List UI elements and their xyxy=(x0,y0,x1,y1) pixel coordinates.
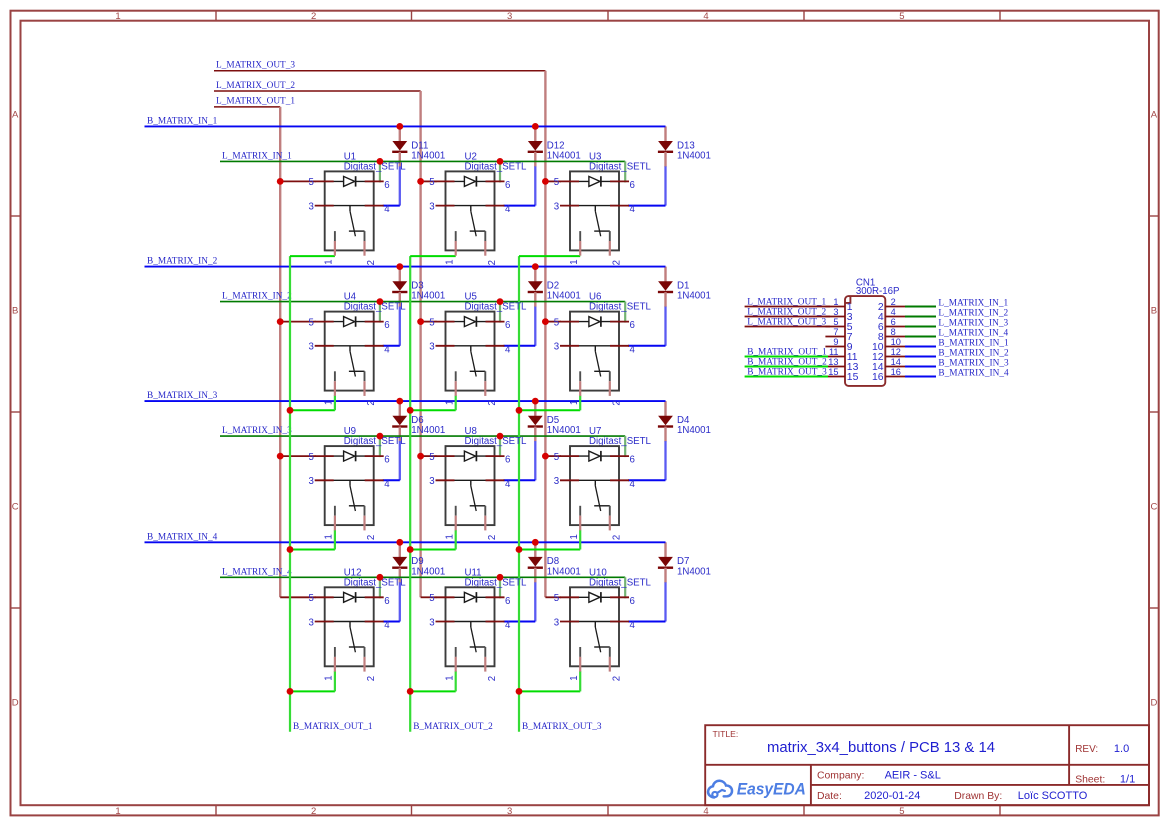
svg-text:4: 4 xyxy=(630,620,636,631)
svg-text:B: B xyxy=(12,306,18,317)
svg-text:10: 10 xyxy=(891,337,901,347)
wire L_MATRIX_OUT_1 to U pin 5 row 4 xyxy=(280,596,316,598)
wire D7 cathode to pin 4 xyxy=(664,582,666,621)
wire L_MATRIX_IN_1 drop to U pin 6 col 3 xyxy=(624,161,626,182)
svg-text:2: 2 xyxy=(366,676,377,681)
junction xyxy=(542,318,549,325)
svg-text:3: 3 xyxy=(554,342,559,353)
wire B_MATRIX_OUT_1 vertical xyxy=(289,256,291,732)
diode D8 1N4001 xyxy=(528,542,581,583)
svg-text:Date:: Date: xyxy=(817,791,842,802)
svg-text:1N4001: 1N4001 xyxy=(547,150,581,161)
svg-text:1N4001: 1N4001 xyxy=(547,425,581,436)
svg-text:L_MATRIX_IN_2: L_MATRIX_IN_2 xyxy=(222,292,292,302)
svg-text:2: 2 xyxy=(366,400,377,405)
pushbutton unit U3 Digitast_SETL xyxy=(554,152,652,266)
svg-text:B_MATRIX_OUT_3: B_MATRIX_OUT_3 xyxy=(747,367,827,377)
svg-text:Drawn By:: Drawn By: xyxy=(954,791,1002,802)
junction xyxy=(407,407,414,414)
wire B_MATRIX_IN_1 xyxy=(145,125,666,127)
diode D9 1N4001 xyxy=(392,542,445,583)
svg-text:1N4001: 1N4001 xyxy=(411,566,445,577)
diode D2 1N4001 xyxy=(528,267,581,308)
svg-text:1: 1 xyxy=(569,534,580,539)
svg-text:4: 4 xyxy=(703,806,708,817)
svg-text:3: 3 xyxy=(833,307,838,317)
svg-text:2: 2 xyxy=(311,806,316,817)
wire D5 cathode to pin 4 xyxy=(534,441,536,480)
svg-text:B_MATRIX_IN_3: B_MATRIX_IN_3 xyxy=(938,359,1009,369)
svg-text:4: 4 xyxy=(384,204,390,215)
wire B_MATRIX_OUT_3 to U pin 1 row 1 xyxy=(519,255,580,257)
junction xyxy=(417,318,424,325)
wire L_MATRIX_OUT_1 at CN1 pin 1 xyxy=(745,306,830,308)
svg-text:B_MATRIX_IN_2: B_MATRIX_IN_2 xyxy=(147,257,218,267)
svg-text:3: 3 xyxy=(429,476,434,487)
pushbutton unit U12 Digitast_SETL xyxy=(309,567,407,681)
wire L_MATRIX_OUT_2 horizontal rail xyxy=(214,90,421,92)
wire D13 cathode to pin 4 xyxy=(664,166,666,205)
svg-text:1: 1 xyxy=(444,534,455,539)
svg-text:15: 15 xyxy=(828,367,838,377)
svg-text:D: D xyxy=(1150,698,1157,709)
junction xyxy=(396,263,403,270)
CN1 pin 5 xyxy=(825,326,845,328)
diode D4 1N4001 xyxy=(658,401,711,442)
wire B_MATRIX_OUT_3 to U pin 1 row 2 xyxy=(519,409,580,411)
svg-text:6: 6 xyxy=(384,180,389,191)
wire B_MATRIX_IN_3 xyxy=(145,400,666,402)
wire D2 cathode to pin 4 xyxy=(534,307,536,346)
svg-text:REV:: REV: xyxy=(1075,744,1098,755)
wire L_MATRIX_OUT_1 horizontal rail xyxy=(214,106,280,108)
svg-text:L_MATRIX_OUT_1: L_MATRIX_OUT_1 xyxy=(216,97,295,107)
CN1 pin 3 xyxy=(825,316,845,318)
svg-text:6: 6 xyxy=(630,455,635,466)
wire L_MATRIX_IN_2 xyxy=(220,301,625,303)
wire L_MATRIX_IN_4 drop to U pin 6 col 3 xyxy=(624,577,626,598)
svg-text:L_MATRIX_OUT_2: L_MATRIX_OUT_2 xyxy=(216,81,295,91)
svg-text:1/1: 1/1 xyxy=(1120,773,1135,785)
wire B_MATRIX_OUT_3 to U pin 1 row 3 xyxy=(519,549,580,551)
wire D6 cathode to pin 4 xyxy=(399,441,401,480)
junction xyxy=(532,539,539,546)
wire L_MATRIX_OUT_3 vertical drop xyxy=(544,71,546,598)
svg-text:6: 6 xyxy=(630,596,635,607)
svg-text:1: 1 xyxy=(324,400,335,405)
svg-text:6: 6 xyxy=(384,455,389,466)
svg-text:4: 4 xyxy=(505,479,511,490)
svg-text:4: 4 xyxy=(384,479,390,490)
diode D1 1N4001 xyxy=(658,267,711,308)
svg-text:B_MATRIX_OUT_2: B_MATRIX_OUT_2 xyxy=(747,357,827,367)
wire B_MATRIX_OUT_2 to U pin 1 row 1 xyxy=(410,255,456,257)
wire B_MATRIX_IN_3 at CN1 pin 14 xyxy=(905,366,936,368)
svg-text:L_MATRIX_OUT_3: L_MATRIX_OUT_3 xyxy=(747,317,826,327)
svg-text:7: 7 xyxy=(833,327,838,337)
wire L_MATRIX_OUT_3 to U pin 5 row 1 xyxy=(545,180,561,182)
svg-text:D: D xyxy=(12,698,19,709)
svg-text:1N4001: 1N4001 xyxy=(677,291,711,302)
svg-text:3: 3 xyxy=(309,201,314,212)
svg-text:12: 12 xyxy=(891,347,901,357)
svg-text:3: 3 xyxy=(554,201,559,212)
junction xyxy=(377,574,384,581)
svg-text:L_MATRIX_OUT_2: L_MATRIX_OUT_2 xyxy=(747,307,826,317)
diode D13 1N4001 xyxy=(658,126,711,166)
wire D8 cathode to pin 4 xyxy=(534,582,536,621)
svg-text:5: 5 xyxy=(554,452,559,463)
wire L_MATRIX_OUT_1 to U pin 5 row 1 xyxy=(280,180,316,182)
svg-text:3: 3 xyxy=(507,11,512,22)
junction xyxy=(516,688,523,695)
junction xyxy=(497,574,504,581)
svg-text:2: 2 xyxy=(366,535,377,540)
svg-text:1N4001: 1N4001 xyxy=(411,425,445,436)
svg-text:4: 4 xyxy=(703,11,708,22)
svg-text:L_MATRIX_OUT_3: L_MATRIX_OUT_3 xyxy=(216,61,295,71)
wire L_MATRIX_OUT_3 at CN1 pin 5 xyxy=(745,326,830,328)
wire L_MATRIX_OUT_2 to U pin 5 row 1 xyxy=(421,180,437,182)
svg-text:4: 4 xyxy=(505,204,511,215)
wire L_MATRIX_IN_3 xyxy=(220,435,625,437)
svg-text:5: 5 xyxy=(429,317,434,328)
wire B_MATRIX_OUT_1 at CN1 pin 11 xyxy=(745,356,828,358)
junction xyxy=(287,546,294,553)
wire B_MATRIX_OUT_1 to U pin 1 row 4 xyxy=(290,690,335,692)
wire L_MATRIX_OUT_1 vertical drop xyxy=(279,107,281,597)
wire B_MATRIX_OUT_3 at CN1 pin 15 xyxy=(745,376,828,378)
wire D1 cathode to pin 4 xyxy=(664,307,666,346)
junction xyxy=(542,178,549,185)
wire L_MATRIX_IN_2 drop to U pin 6 col 2 xyxy=(499,302,501,323)
svg-text:2: 2 xyxy=(487,400,498,405)
svg-text:2: 2 xyxy=(611,535,622,540)
wire D4 cathode to pin 4 xyxy=(664,441,666,480)
svg-text:EasyEDA: EasyEDA xyxy=(737,781,806,799)
svg-text:4: 4 xyxy=(384,344,390,355)
junction xyxy=(516,546,523,553)
svg-text:B_MATRIX_IN_4: B_MATRIX_IN_4 xyxy=(147,532,218,542)
svg-text:L_MATRIX_IN_3: L_MATRIX_IN_3 xyxy=(938,319,1008,329)
junction xyxy=(287,407,294,414)
svg-text:1: 1 xyxy=(569,400,580,405)
svg-text:3: 3 xyxy=(429,342,434,353)
CN1 pin 9 xyxy=(825,346,845,348)
CN1 pin 7 xyxy=(825,336,845,338)
wire L_MATRIX_OUT_2 to U pin 5 row 4 xyxy=(421,596,437,598)
junction xyxy=(396,539,403,546)
wire L_MATRIX_IN_4 at CN1 pin 8 xyxy=(905,336,936,338)
svg-text:B_MATRIX_OUT_3: B_MATRIX_OUT_3 xyxy=(522,722,602,732)
svg-text:6: 6 xyxy=(505,180,510,191)
svg-text:L_MATRIX_IN_1: L_MATRIX_IN_1 xyxy=(938,299,1008,309)
wire L_MATRIX_IN_1 at CN1 pin 2 xyxy=(905,306,936,308)
wire L_MATRIX_IN_1 xyxy=(220,160,625,162)
svg-text:2: 2 xyxy=(611,676,622,681)
junction xyxy=(377,158,384,165)
junction xyxy=(407,546,414,553)
diode D5 1N4001 xyxy=(528,401,581,442)
svg-text:5: 5 xyxy=(554,593,559,604)
pushbutton unit U5 Digitast_SETL xyxy=(429,292,527,406)
CN1 pin 4 xyxy=(885,316,905,318)
wire B_MATRIX_IN_1 at CN1 pin 10 xyxy=(905,346,936,348)
CN1 pin 2 xyxy=(885,306,905,308)
svg-text:1: 1 xyxy=(444,259,455,264)
svg-text:2: 2 xyxy=(366,260,377,265)
wire L_MATRIX_OUT_2 to U pin 5 row 2 xyxy=(421,321,437,323)
wire L_MATRIX_IN_2 drop to U pin 6 col 1 xyxy=(379,302,381,323)
svg-text:5: 5 xyxy=(833,317,838,327)
svg-text:L_MATRIX_IN_4: L_MATRIX_IN_4 xyxy=(938,329,1008,339)
CN1 pin 11 xyxy=(825,356,845,358)
svg-text:5: 5 xyxy=(309,317,314,328)
svg-text:2020-01-24: 2020-01-24 xyxy=(864,790,920,802)
junction xyxy=(287,688,294,695)
svg-text:C: C xyxy=(12,502,19,513)
svg-text:6: 6 xyxy=(891,317,896,327)
svg-text:B_MATRIX_OUT_1: B_MATRIX_OUT_1 xyxy=(293,722,373,732)
svg-text:2: 2 xyxy=(611,260,622,265)
svg-text:L_MATRIX_IN_2: L_MATRIX_IN_2 xyxy=(938,309,1008,319)
junction xyxy=(277,318,284,325)
svg-text:B_MATRIX_IN_2: B_MATRIX_IN_2 xyxy=(938,349,1009,359)
wire B_MATRIX_OUT_1 to U pin 1 row 1 xyxy=(290,255,335,257)
svg-text:AEIR - S&L: AEIR - S&L xyxy=(885,769,941,781)
junction xyxy=(417,178,424,185)
junction xyxy=(516,407,523,414)
wire L_MATRIX_OUT_2 vertical drop xyxy=(419,91,421,597)
junction xyxy=(277,178,284,185)
CN1 pin 12 xyxy=(885,356,905,358)
svg-text:1N4001: 1N4001 xyxy=(677,150,711,161)
CN1 pin 15 xyxy=(825,376,845,378)
svg-text:B_MATRIX_IN_1: B_MATRIX_IN_1 xyxy=(938,339,1009,349)
svg-text:1: 1 xyxy=(324,675,335,680)
svg-text:1N4001: 1N4001 xyxy=(547,566,581,577)
wire B_MATRIX_OUT_2 to U pin 1 row 4 xyxy=(410,690,456,692)
wire L_MATRIX_IN_2 drop to U pin 6 col 3 xyxy=(624,302,626,323)
svg-text:5: 5 xyxy=(309,593,314,604)
junction xyxy=(277,453,284,460)
junction xyxy=(497,433,504,440)
svg-text:16: 16 xyxy=(891,367,901,377)
svg-text:3: 3 xyxy=(554,476,559,487)
svg-text:6: 6 xyxy=(505,596,510,607)
svg-text:5: 5 xyxy=(429,177,434,188)
wire B_MATRIX_IN_2 at CN1 pin 12 xyxy=(905,356,936,358)
svg-text:2: 2 xyxy=(311,11,316,22)
svg-text:3: 3 xyxy=(309,617,314,628)
svg-text:B_MATRIX_OUT_1: B_MATRIX_OUT_1 xyxy=(747,347,827,357)
wire L_MATRIX_OUT_3 to U pin 5 row 2 xyxy=(545,321,561,323)
pushbutton unit U9 Digitast_SETL xyxy=(309,426,407,540)
wire L_MATRIX_IN_2 at CN1 pin 4 xyxy=(905,316,936,318)
svg-text:3: 3 xyxy=(309,342,314,353)
CN1 pin 14 xyxy=(885,366,905,368)
wire B_MATRIX_IN_4 xyxy=(145,541,666,543)
svg-text:13: 13 xyxy=(828,357,838,367)
svg-text:2: 2 xyxy=(487,535,498,540)
wire D3 cathode to pin 4 xyxy=(399,307,401,346)
svg-text:4: 4 xyxy=(505,344,511,355)
junction xyxy=(532,263,539,270)
svg-text:1: 1 xyxy=(569,675,580,680)
wire L_MATRIX_IN_3 at CN1 pin 6 xyxy=(905,326,936,328)
svg-text:B_MATRIX_OUT_2: B_MATRIX_OUT_2 xyxy=(413,722,493,732)
diode D12 1N4001 xyxy=(528,126,581,166)
svg-text:1: 1 xyxy=(115,11,120,22)
wire B_MATRIX_OUT_3 vertical xyxy=(518,256,520,732)
svg-text:L_MATRIX_IN_1: L_MATRIX_IN_1 xyxy=(222,151,292,161)
svg-text:1N4001: 1N4001 xyxy=(677,566,711,577)
wire B_MATRIX_OUT_2 vertical xyxy=(409,256,411,732)
svg-text:4: 4 xyxy=(384,620,390,631)
CN1 pin 10 xyxy=(885,346,905,348)
junction xyxy=(542,453,549,460)
svg-text:1N4001: 1N4001 xyxy=(547,291,581,302)
CN1 pin 16 xyxy=(885,376,905,378)
svg-text:5: 5 xyxy=(309,177,314,188)
svg-text:3: 3 xyxy=(429,201,434,212)
svg-text:1N4001: 1N4001 xyxy=(677,425,711,436)
title block xyxy=(705,725,1149,805)
CN1 pin 1 xyxy=(825,306,845,308)
EasyEDA logo xyxy=(708,781,806,799)
junction xyxy=(377,298,384,305)
svg-text:5: 5 xyxy=(429,593,434,604)
pushbutton unit U6 Digitast_SETL xyxy=(554,292,652,406)
wire B_MATRIX_OUT_2 to U pin 1 row 3 xyxy=(410,549,456,551)
pushbutton unit U8 Digitast_SETL xyxy=(429,426,527,540)
svg-text:B_MATRIX_IN_4: B_MATRIX_IN_4 xyxy=(938,369,1009,379)
wire L_MATRIX_IN_4 drop to U pin 6 col 2 xyxy=(499,577,501,598)
svg-text:1: 1 xyxy=(444,675,455,680)
pushbutton unit U10 Digitast_SETL xyxy=(554,567,652,681)
svg-text:6: 6 xyxy=(384,596,389,607)
wire L_MATRIX_IN_3 drop to U pin 6 col 2 xyxy=(499,436,501,457)
svg-text:1: 1 xyxy=(115,806,120,817)
svg-text:4: 4 xyxy=(630,344,636,355)
svg-text:6: 6 xyxy=(630,320,635,331)
svg-text:L_MATRIX_IN_3: L_MATRIX_IN_3 xyxy=(222,426,292,436)
svg-text:matrix_3x4_buttons / PCB 13 &: matrix_3x4_buttons / PCB 13 & 14 xyxy=(767,739,995,756)
svg-text:11: 11 xyxy=(829,347,839,357)
svg-text:2: 2 xyxy=(611,400,622,405)
diode D11 1N4001 xyxy=(392,126,445,166)
svg-text:4: 4 xyxy=(630,479,636,490)
svg-text:8: 8 xyxy=(891,327,896,337)
diode D6 1N4001 xyxy=(392,401,445,442)
svg-text:A: A xyxy=(12,110,19,121)
svg-text:6: 6 xyxy=(630,180,635,191)
svg-text:3: 3 xyxy=(309,476,314,487)
svg-text:TITLE:: TITLE: xyxy=(713,729,739,739)
svg-text:6: 6 xyxy=(384,320,389,331)
svg-text:9: 9 xyxy=(833,337,838,347)
CN1 pin 6 xyxy=(885,326,905,328)
wire L_MATRIX_IN_3 drop to U pin 6 col 3 xyxy=(624,436,626,457)
svg-text:3: 3 xyxy=(507,806,512,817)
wire D12 cathode to pin 4 xyxy=(534,166,536,205)
svg-text:L_MATRIX_IN_4: L_MATRIX_IN_4 xyxy=(222,567,292,577)
svg-text:16: 16 xyxy=(872,372,884,383)
pushbutton unit U11 Digitast_SETL xyxy=(429,567,527,681)
svg-text:Sheet:: Sheet: xyxy=(1075,774,1105,785)
svg-text:5: 5 xyxy=(554,177,559,188)
wire L_MATRIX_OUT_2 at CN1 pin 3 xyxy=(745,316,830,318)
svg-text:4: 4 xyxy=(891,307,896,317)
wire D9 cathode to pin 4 xyxy=(399,582,401,621)
svg-text:B: B xyxy=(1151,306,1157,317)
junction xyxy=(532,398,539,405)
svg-text:1: 1 xyxy=(324,259,335,264)
junction xyxy=(407,688,414,695)
svg-text:4: 4 xyxy=(630,204,636,215)
svg-text:6: 6 xyxy=(505,455,510,466)
svg-text:1: 1 xyxy=(833,297,838,307)
wire L_MATRIX_IN_3 drop to U pin 6 col 1 xyxy=(379,436,381,457)
wire L_MATRIX_IN_4 xyxy=(220,576,625,578)
CN1 pin 13 xyxy=(825,366,845,368)
diode D3 1N4001 xyxy=(392,267,445,308)
wire L_MATRIX_IN_4 drop to U pin 6 col 1 xyxy=(379,577,381,598)
svg-text:5: 5 xyxy=(309,452,314,463)
svg-text:B_MATRIX_IN_3: B_MATRIX_IN_3 xyxy=(147,391,218,401)
wire B_MATRIX_IN_2 xyxy=(145,266,666,268)
svg-text:14: 14 xyxy=(891,357,901,367)
svg-text:2: 2 xyxy=(487,676,498,681)
svg-text:3: 3 xyxy=(429,617,434,628)
svg-text:Company:: Company: xyxy=(817,770,864,781)
wire L_MATRIX_OUT_1 to U pin 5 row 2 xyxy=(280,321,316,323)
svg-text:A: A xyxy=(1151,110,1158,121)
svg-text:6: 6 xyxy=(505,320,510,331)
svg-text:1: 1 xyxy=(569,259,580,264)
svg-text:5: 5 xyxy=(899,806,904,817)
wire L_MATRIX_OUT_3 to U pin 5 row 4 xyxy=(545,596,561,598)
wire L_MATRIX_IN_1 drop to U pin 6 col 2 xyxy=(499,161,501,182)
svg-text:1.0: 1.0 xyxy=(1114,743,1129,755)
svg-text:Loïc SCOTTO: Loïc SCOTTO xyxy=(1018,790,1088,802)
pushbutton unit U4 Digitast_SETL xyxy=(309,292,407,406)
svg-text:C: C xyxy=(1150,502,1157,513)
CN1 pin 8 xyxy=(885,336,905,338)
svg-text:5: 5 xyxy=(554,317,559,328)
wire B_MATRIX_OUT_2 to U pin 1 row 2 xyxy=(410,409,456,411)
svg-text:1: 1 xyxy=(324,534,335,539)
wire L_MATRIX_OUT_3 to U pin 5 row 3 xyxy=(545,455,561,457)
svg-text:B_MATRIX_IN_1: B_MATRIX_IN_1 xyxy=(147,116,218,126)
wire L_MATRIX_OUT_2 to U pin 5 row 3 xyxy=(421,455,437,457)
junction xyxy=(417,453,424,460)
svg-text:1N4001: 1N4001 xyxy=(411,150,445,161)
svg-text:5: 5 xyxy=(899,11,904,22)
diode D7 1N4001 xyxy=(658,542,711,583)
junction xyxy=(497,298,504,305)
svg-text:4: 4 xyxy=(505,620,511,631)
pushbutton unit U2 Digitast_SETL xyxy=(429,152,527,266)
svg-text:1: 1 xyxy=(444,400,455,405)
connector CN1 300R-16P xyxy=(825,277,905,386)
svg-text:2: 2 xyxy=(487,260,498,265)
junction xyxy=(497,158,504,165)
wire B_MATRIX_OUT_1 to U pin 1 row 3 xyxy=(290,549,335,551)
wire L_MATRIX_IN_1 drop to U pin 6 col 1 xyxy=(379,161,381,182)
wire B_MATRIX_OUT_1 to U pin 1 row 2 xyxy=(290,409,335,411)
svg-text:2: 2 xyxy=(891,297,896,307)
